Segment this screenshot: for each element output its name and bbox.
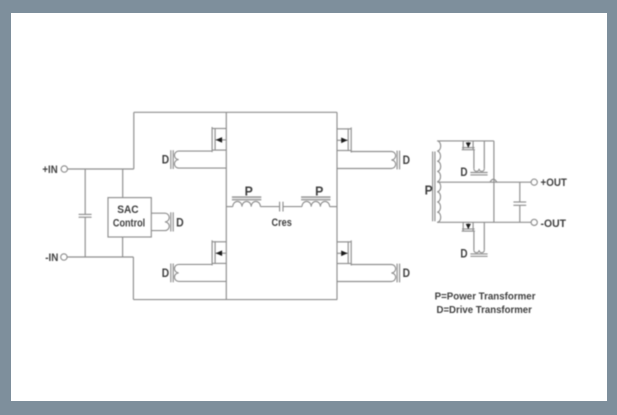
svg-text:P=Power Transformer: P=Power Transformer <box>435 292 536 303</box>
svg-text:D: D <box>162 153 170 167</box>
svg-text:+OUT: +OUT <box>541 177 567 189</box>
svg-text:P: P <box>245 184 253 198</box>
svg-text:Cres: Cres <box>272 217 292 229</box>
svg-text:D: D <box>403 153 411 167</box>
svg-text:P: P <box>315 184 323 198</box>
svg-text:D: D <box>162 266 170 280</box>
svg-text:D: D <box>176 215 184 229</box>
svg-text:SAC: SAC <box>117 204 139 216</box>
svg-text:-OUT: -OUT <box>541 218 567 230</box>
svg-text:Control: Control <box>113 218 145 230</box>
svg-text:P: P <box>425 184 433 198</box>
svg-text:D=Drive Transformer: D=Drive Transformer <box>437 305 532 316</box>
svg-text:D: D <box>460 246 468 260</box>
svg-text:D: D <box>460 165 468 179</box>
svg-text:-IN: -IN <box>45 252 58 264</box>
svg-text:+IN: +IN <box>42 164 57 176</box>
svg-text:D: D <box>403 266 411 280</box>
